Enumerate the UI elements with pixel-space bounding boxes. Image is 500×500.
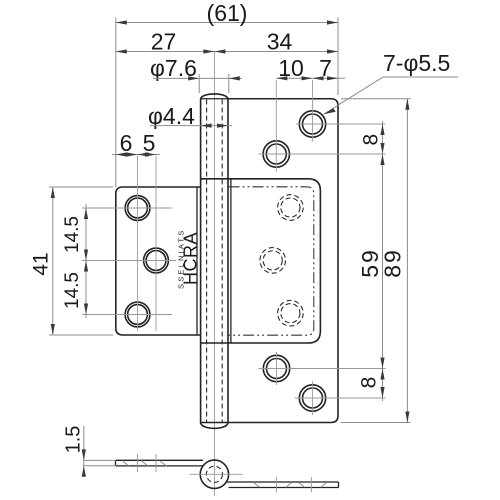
svg-text:34: 34 — [267, 29, 293, 55]
right plate hole centerline 2 — [310, 477, 312, 493]
dim phi7.6 extension left — [198, 74, 200, 93]
dim 89 line — [406, 99, 408, 423]
left leaf body — [116, 187, 201, 335]
left plate hole slash 2 — [141, 461, 148, 467]
wire: main vertical centerline of pin axis — [213, 52, 215, 497]
svg-text:89: 89 — [380, 248, 406, 278]
phantom hole P2 — [260, 248, 286, 274]
centerline H1 row extension — [296, 123, 386, 125]
centerline H1 vertical — [312, 80, 314, 142]
hole H4 right leaf bottom right — [299, 385, 325, 411]
dim phi7.6 extension right — [228, 74, 230, 93]
barrel bottom dome — [201, 423, 228, 428]
left plate hole slash 3 — [160, 461, 167, 467]
left plate end cap — [115, 460, 117, 466]
svg-text:1.5: 1.5 — [63, 426, 85, 454]
dim 1.5 extension top — [83, 459, 116, 461]
left plate hole centerline 2 — [155, 454, 157, 472]
hole H3 right leaf lower left — [263, 355, 289, 381]
dim 27/34 line — [116, 51, 338, 53]
svg-text:41: 41 — [30, 252, 53, 275]
dim 41 extension bottom — [49, 334, 113, 336]
extension line left edge (61/27/6-5 dims) — [115, 18, 117, 188]
right plate top line — [227, 481, 339, 483]
right plate hole slash 3 — [299, 482, 305, 487]
svg-text:8: 8 — [360, 134, 383, 146]
hole H2 right leaf upper left — [263, 141, 289, 167]
svg-text:7-φ5.5: 7-φ5.5 — [383, 50, 450, 76]
centerline row L1 — [82, 207, 172, 209]
centerline column left hole col 1 — [137, 156, 139, 332]
centerline H2 row extension — [259, 153, 386, 155]
pin hidden line left — [206, 100, 208, 423]
svg-text:27: 27 — [151, 29, 177, 55]
centerline H4 row extension — [295, 397, 386, 399]
dim phi4.4 leader line — [150, 125, 232, 127]
phantom hole P3 — [278, 300, 304, 326]
platform (raised seat) on right leaf — [201, 179, 321, 343]
hole L3 left leaf bottom — [125, 302, 150, 327]
extension line right edge (61/34/7 dims) — [337, 18, 339, 96]
phantom outline of folded leaf — [229, 187, 314, 335]
right plate hole slash 2 — [286, 482, 292, 487]
centerline H2 vertical — [275, 80, 277, 172]
svg-text:(61): (61) — [207, 0, 248, 26]
extension line right leaf bottom (89 dim) — [341, 422, 411, 424]
dim 10/7 line — [276, 77, 345, 79]
right plate hole centerline 1 — [276, 477, 278, 493]
centerline row L2 — [82, 260, 176, 262]
svg-text:7: 7 — [319, 55, 332, 81]
barrel right edge — [227, 99, 229, 423]
centerline H4 vertical — [312, 381, 314, 415]
dim 1.5 extension bottom — [83, 465, 116, 467]
dim 7-phi5.5 leader — [324, 77, 384, 114]
centerline row L3 — [82, 314, 172, 316]
right plate hole slash 4 — [321, 482, 327, 487]
svg-text:6: 6 — [120, 130, 133, 156]
svg-text:8: 8 — [358, 377, 381, 389]
extension line right leaf top (89 dim) — [341, 98, 411, 100]
left plate hole centerline 1 — [137, 454, 139, 472]
hole L1 left leaf top — [125, 196, 150, 221]
dim (61) line — [116, 22, 338, 24]
centerline H3 vertical — [276, 352, 278, 385]
left plate hole slash 1 — [123, 461, 129, 467]
svg-text:10: 10 — [278, 55, 304, 81]
dim 14.5 line — [85, 204, 87, 318]
dim 1.5 line — [83, 426, 85, 473]
pin hidden circle — [206, 466, 222, 482]
dim 41 extension top — [49, 186, 113, 188]
left plate top line — [116, 459, 204, 461]
dim phi7.6 line — [153, 77, 242, 79]
dim 7-phi5.5 leader underline — [383, 76, 458, 78]
barrel top dome — [201, 94, 228, 99]
platform bend line — [230, 179, 232, 343]
pin circle horizontal centerline — [190, 473, 243, 475]
barrel left edge — [200, 99, 202, 423]
right plate bottom line — [229, 487, 339, 489]
svg-text:5: 5 — [143, 130, 156, 156]
right plate end cap — [338, 482, 340, 488]
left plate bottom line — [116, 465, 204, 467]
hole L2 left leaf middle — [144, 248, 169, 273]
dim 8/59/8 line — [382, 121, 384, 401]
centerline column left hole col 2 — [155, 156, 157, 332]
pin barrel circle — [200, 460, 228, 488]
dim 41 line — [52, 187, 54, 335]
barrel top shoulder line — [201, 98, 228, 100]
pin hidden line right — [221, 100, 223, 423]
right leaf body — [201, 99, 338, 423]
left leaf bend line — [196, 187, 198, 335]
centerline H3 row extension — [259, 368, 386, 370]
svg-text:14.5: 14.5 — [62, 216, 83, 253]
svg-text:14.5: 14.5 — [62, 272, 83, 309]
right plate hole slash 1 — [254, 482, 260, 487]
svg-text:SSELNIATS: SSELNIATS — [177, 228, 186, 289]
dim 6/5 line — [112, 154, 160, 156]
phantom hole P1 — [278, 195, 304, 221]
hole H1 right leaf top right — [299, 111, 325, 137]
